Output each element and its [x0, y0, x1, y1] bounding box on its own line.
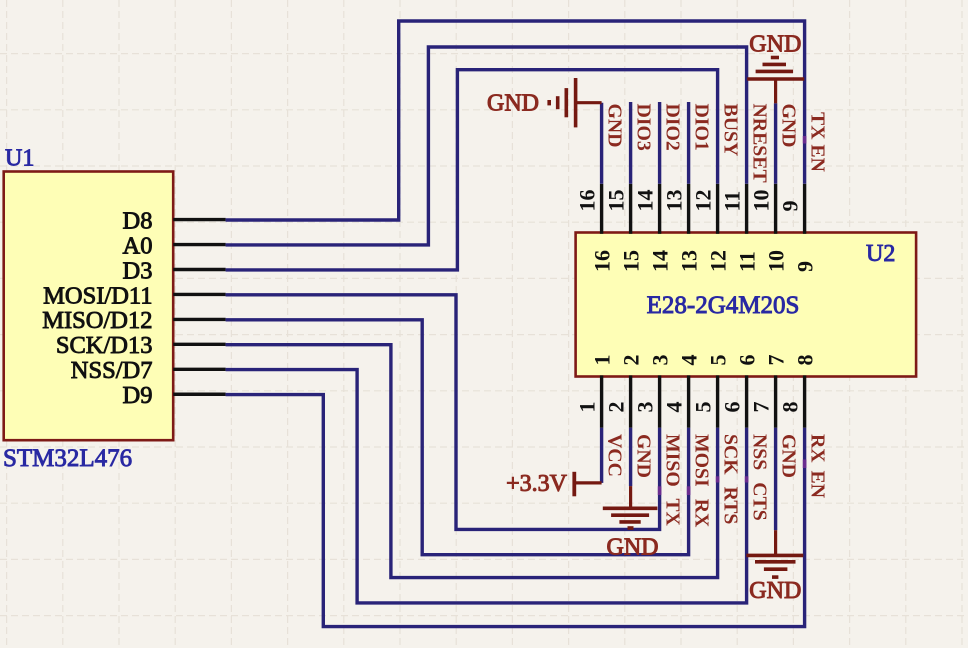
svg-text:7: 7 [764, 355, 789, 366]
svg-text:TX EN: TX EN [807, 112, 829, 173]
svg-text:GND: GND [633, 434, 655, 478]
svg-text:E28-2G4M20S: E28-2G4M20S [647, 292, 800, 319]
svg-text:DIO3: DIO3 [633, 104, 655, 151]
svg-text:4: 4 [662, 402, 687, 413]
svg-text:8: 8 [793, 355, 818, 366]
svg-text:STM32L476: STM32L476 [3, 445, 132, 472]
svg-text:MOSI RX: MOSI RX [691, 434, 713, 528]
svg-text:+3.3V: +3.3V [506, 471, 568, 497]
svg-text:MISO TX: MISO TX [662, 434, 684, 527]
svg-text:A0: A0 [123, 232, 153, 259]
svg-text:15: 15 [604, 190, 629, 212]
svg-text:BUSY: BUSY [720, 104, 742, 157]
svg-text:U1: U1 [5, 146, 34, 172]
svg-text:NSS/D7: NSS/D7 [71, 357, 153, 384]
svg-text:9: 9 [793, 261, 818, 272]
svg-text:MOSI/D11: MOSI/D11 [43, 282, 152, 309]
svg-text:6: 6 [735, 355, 760, 366]
svg-text:SCK RTS: SCK RTS [720, 434, 742, 524]
svg-text:16: 16 [590, 250, 615, 272]
svg-text:4: 4 [677, 355, 702, 366]
svg-text:7: 7 [749, 402, 774, 413]
svg-text:DIO2: DIO2 [662, 104, 684, 151]
svg-text:GND: GND [604, 104, 626, 148]
svg-text:2: 2 [604, 402, 629, 413]
svg-text:GND: GND [749, 578, 801, 604]
svg-text:GND: GND [487, 91, 539, 117]
svg-text:2: 2 [619, 355, 644, 366]
svg-text:GND: GND [778, 104, 800, 148]
svg-text:6: 6 [720, 402, 745, 413]
svg-text:SCK/D13: SCK/D13 [56, 332, 153, 359]
svg-text:GND: GND [778, 434, 800, 478]
svg-text:NRESET: NRESET [749, 104, 771, 183]
svg-text:16: 16 [575, 190, 600, 212]
svg-text:11: 11 [720, 191, 745, 212]
svg-text:GND: GND [607, 534, 659, 560]
svg-text:5: 5 [706, 355, 731, 366]
svg-text:12: 12 [691, 190, 716, 212]
svg-text:1: 1 [590, 355, 615, 366]
svg-text:13: 13 [662, 190, 687, 212]
svg-text:9: 9 [778, 201, 803, 212]
svg-text:3: 3 [648, 355, 673, 366]
svg-text:D9: D9 [123, 382, 153, 409]
svg-text:8: 8 [778, 402, 803, 413]
svg-text:U2: U2 [866, 241, 895, 267]
svg-text:14: 14 [648, 250, 673, 272]
svg-text:NSS CTS: NSS CTS [749, 434, 771, 521]
svg-text:3: 3 [633, 402, 658, 413]
svg-text:10: 10 [749, 190, 774, 212]
svg-text:13: 13 [677, 250, 702, 272]
svg-text:11: 11 [735, 251, 760, 272]
svg-text:12: 12 [706, 250, 731, 272]
svg-text:14: 14 [633, 190, 658, 212]
svg-text:1: 1 [575, 402, 600, 413]
svg-text:D3: D3 [123, 257, 153, 284]
svg-text:RX EN: RX EN [807, 434, 829, 499]
svg-text:15: 15 [619, 250, 644, 272]
svg-text:D8: D8 [123, 207, 153, 234]
svg-text:MISO/D12: MISO/D12 [42, 307, 152, 334]
svg-text:VCC: VCC [604, 434, 626, 477]
svg-text:5: 5 [691, 402, 716, 413]
svg-text:10: 10 [764, 250, 789, 272]
svg-text:GND: GND [749, 32, 801, 58]
svg-text:DIO1: DIO1 [691, 104, 713, 151]
